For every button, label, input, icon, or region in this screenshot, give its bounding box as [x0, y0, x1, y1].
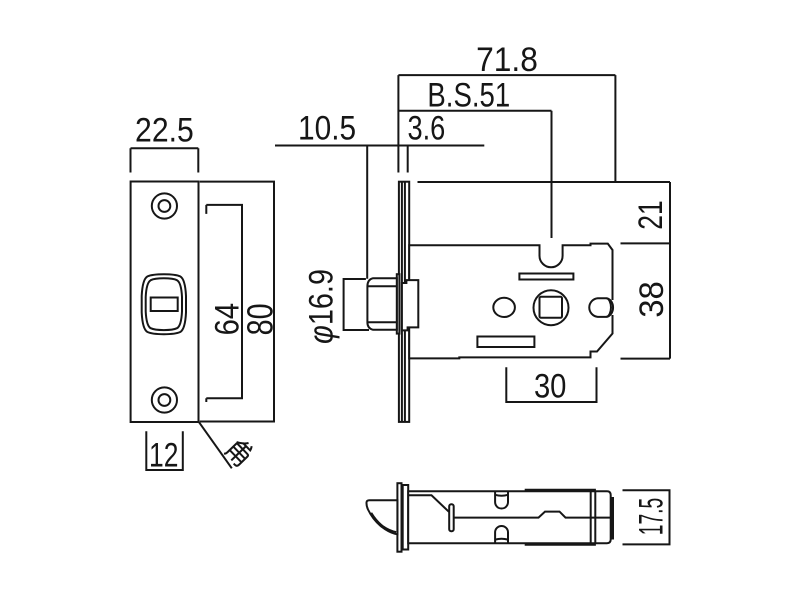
- dimension 12 bracket: [146, 431, 183, 470]
- dimension 64 bracket: [206, 205, 242, 402]
- small round hole: [493, 298, 515, 317]
- kanji corner note (hand drawn strokes): [224, 436, 255, 467]
- svg-text:21: 21: [632, 200, 670, 229]
- faceplate edge-on (side view): [399, 182, 409, 422]
- dimension 30 bracket: [506, 367, 596, 402]
- D-shaped hole at rear edge: [611, 300, 616, 315]
- svg-text:38: 38: [633, 281, 671, 318]
- svg-text:3.6: 3.6: [408, 110, 446, 148]
- case body (top view): [408, 491, 611, 543]
- svg-text:71.8: 71.8: [476, 41, 538, 79]
- latch bolt wedge (top view): [366, 500, 397, 534]
- latch bolt head: [367, 278, 396, 330]
- faceplate front view: [131, 182, 199, 423]
- svg-text:80: 80: [240, 303, 281, 335]
- phi 16.9 bracket: [344, 279, 369, 330]
- svg-text:φ16.9: φ16.9: [302, 269, 340, 344]
- spindle square hole: [540, 297, 563, 318]
- latch bolt barrel inner outline: [146, 278, 182, 330]
- latch bolt slot: [151, 298, 178, 312]
- cap joint double lines: [591, 491, 596, 543]
- kanji stroke: crown bar: [243, 440, 253, 450]
- kanji stroke: frame: [224, 442, 249, 467]
- kanji stroke: left falling: [237, 437, 249, 449]
- top screw hole: [152, 193, 177, 218]
- top edge flange band: [525, 489, 596, 492]
- reference line plate top: [418, 181, 671, 183]
- latch bolt flange: [397, 274, 400, 333]
- dimension 80 bracket: [200, 182, 274, 422]
- kanji stroke: inner bars: [225, 440, 252, 466]
- latch bolt barrel outer outline: [142, 274, 186, 334]
- wedge bevel inner line: [371, 513, 396, 532]
- svg-text:10.5: 10.5: [298, 110, 356, 148]
- bottom edge flange band: [525, 543, 596, 546]
- svg-text:30: 30: [534, 367, 567, 405]
- dimension 21 / 38 extension lines: [621, 182, 671, 359]
- top tab: [495, 491, 508, 508]
- dimension 71.8 line: [398, 75, 615, 182]
- svg-text:22.5: 22.5: [135, 111, 194, 149]
- spring bar: [449, 504, 454, 531]
- front plate (top view): [397, 483, 401, 552]
- upper slot in case: [519, 274, 573, 280]
- lock case body outline: [409, 244, 612, 359]
- inner top line and diagonal: [408, 495, 449, 512]
- dimension 22.5 line: [131, 148, 199, 172]
- leader line to corner note: [199, 422, 232, 468]
- lower slot in case: [477, 337, 534, 348]
- dimension 17.5 bracket: [623, 490, 670, 544]
- faceplate inner layer lines: [402, 182, 405, 422]
- bottom screw hole: [152, 387, 177, 412]
- bottom tab: [495, 526, 508, 543]
- latch bolt tail (behind plate): [402, 280, 418, 330]
- case plate (top view): [403, 485, 409, 550]
- svg-text:17.5: 17.5: [632, 498, 670, 536]
- latch bolt head chamfer lines: [367, 286, 396, 322]
- cap end heavy line: [611, 497, 614, 540]
- middle line with jog: [454, 512, 610, 518]
- dimension 10.5 / 3.6 line: [275, 146, 484, 279]
- spindle circle: [534, 290, 569, 325]
- dimension B.S.51 line: [398, 111, 551, 238]
- svg-text:12: 12: [149, 436, 178, 474]
